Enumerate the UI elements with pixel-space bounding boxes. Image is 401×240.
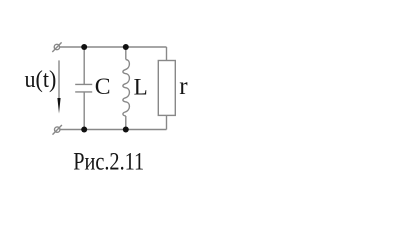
capacitor C plates — [75, 83, 92, 85]
node bottom C junction — [81, 127, 87, 133]
svg-text:r: r — [179, 73, 188, 100]
wire bottom horizontal — [60, 129, 167, 131]
wire capacitor bottom lead — [83, 92, 85, 130]
node bottom L junction — [123, 127, 129, 133]
arrow u(t) head — [57, 98, 60, 114]
wire top horizontal — [60, 46, 167, 48]
terminal bottom-left — [55, 127, 60, 132]
wire inductor top lead — [125, 47, 127, 60]
inductor L coil — [123, 60, 130, 117]
svg-text:L: L — [134, 75, 148, 100]
svg-text:Рис.2.11: Рис.2.11 — [73, 147, 144, 176]
svg-text:C: C — [95, 74, 111, 99]
terminal top-left — [54, 44, 59, 49]
wire resistor bottom lead — [166, 115, 168, 129]
wire resistor top lead — [166, 47, 168, 61]
node top C junction — [81, 44, 87, 50]
node top L junction — [123, 44, 129, 50]
wire capacitor top lead — [83, 47, 85, 84]
arrow u(t) stem — [58, 60, 60, 100]
resistor r body — [158, 61, 175, 116]
wire inductor bottom lead — [125, 116, 127, 130]
svg-text:u(t): u(t) — [25, 67, 57, 93]
